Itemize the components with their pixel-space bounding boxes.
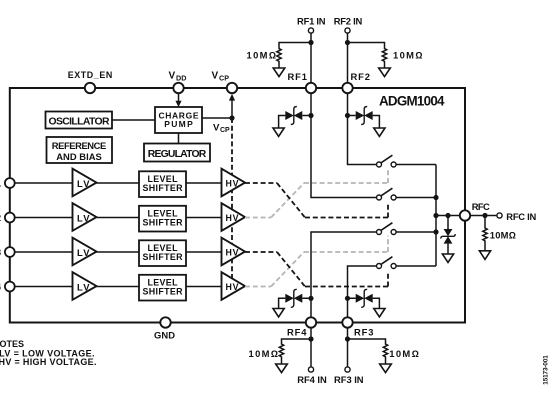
pin RF4 bbox=[287, 317, 316, 337]
svg-text:HV: HV bbox=[226, 282, 239, 292]
svg-text:2: 2 bbox=[0, 212, 1, 223]
node RF3IN junction bbox=[345, 336, 350, 341]
ground at RF1 IN resistor bbox=[273, 68, 285, 77]
svg-text:SHIFTER: SHIFTER bbox=[143, 286, 184, 296]
svg-text:HV: HV bbox=[226, 178, 239, 188]
pin RF1 bbox=[288, 71, 317, 93]
svg-text:RF1 IN: RF1 IN bbox=[297, 16, 326, 27]
pin EXTD_EN bbox=[68, 70, 113, 93]
amplifier HV row3 bbox=[222, 238, 246, 266]
svg-text:RF1: RF1 bbox=[288, 71, 308, 82]
switch SW4 (RF3 to RFC) bbox=[377, 257, 437, 269]
svg-text:RFC IN: RFC IN bbox=[506, 211, 536, 222]
reference and bias block bbox=[47, 137, 113, 163]
label VCP internal bbox=[213, 122, 230, 134]
level shifter row3 bbox=[139, 240, 222, 266]
amplifier HV row4 bbox=[222, 272, 246, 300]
amplifier LV row2 bbox=[73, 203, 140, 231]
terminal RF4 IN bbox=[297, 328, 327, 385]
wire row4 input bbox=[10, 286, 73, 288]
switch SW3 (RF4 to RFC) bbox=[377, 223, 437, 235]
amplifier LV row3 bbox=[73, 238, 140, 266]
pin IN3 (left edge) bbox=[0, 246, 15, 257]
svg-text:RFC: RFC bbox=[472, 201, 490, 212]
resistor 10M at RF3 IN bbox=[348, 339, 419, 364]
svg-text:1: 1 bbox=[0, 177, 1, 188]
node VCP junction dot bbox=[229, 115, 234, 120]
resistor 10M at RF2 IN bbox=[348, 43, 423, 69]
ESD diode pair at RF3 bbox=[345, 289, 380, 308]
svg-text:ADGM1004: ADGM1004 bbox=[379, 93, 445, 108]
wire arrow up to VCP pin bbox=[229, 94, 235, 118]
svg-text:LV: LV bbox=[77, 213, 90, 224]
ground at RF2 ESD bbox=[374, 128, 385, 136]
gate line (gray) HV2 to switch1: stub, diagonal up, run, riser bbox=[245, 168, 388, 218]
switch SW2 (RF1 to RFC) bbox=[377, 188, 437, 200]
terminal RFC IN bbox=[470, 211, 536, 222]
amplifier LV row4 bbox=[73, 272, 140, 300]
wire RF1 pin down to switch2 bbox=[311, 93, 377, 197]
svg-text:SHIFTER: SHIFTER bbox=[143, 252, 184, 262]
regulator block bbox=[144, 144, 210, 162]
main IC boundary box ADGM1004 bbox=[10, 88, 465, 323]
ESD diode pair at RF2 bbox=[345, 107, 380, 129]
svg-text:DD: DD bbox=[176, 74, 186, 83]
oscillator U-osc bbox=[46, 112, 113, 129]
amplifier HV row1 bbox=[222, 169, 246, 197]
svg-text:3: 3 bbox=[0, 246, 1, 257]
svg-text:SHIFTER: SHIFTER bbox=[143, 183, 184, 193]
node TVS junction on RFC wire bbox=[445, 213, 450, 218]
resistor 10M at RF4 IN bbox=[249, 339, 312, 364]
node bus-RFC junction bbox=[433, 213, 438, 218]
wire charge pump to regulator bbox=[178, 133, 180, 144]
wire bus to RFC pin bbox=[436, 215, 460, 217]
svg-text:LV: LV bbox=[77, 178, 90, 189]
svg-text:GND: GND bbox=[154, 330, 175, 341]
svg-text:10MΩ: 10MΩ bbox=[247, 49, 277, 60]
terminal RF3 IN bbox=[334, 328, 364, 385]
wire row3 input bbox=[10, 251, 73, 253]
pin IN2 (left edge) bbox=[0, 212, 15, 223]
svg-text:RF3: RF3 bbox=[354, 327, 374, 338]
pin VCP bbox=[212, 71, 238, 94]
ground at RF3 ESD bbox=[374, 309, 385, 317]
gate line (black) HV3 to switch4: stub, diagonal down, run, riser bbox=[245, 252, 388, 287]
svg-text:15173-001: 15173-001 bbox=[543, 355, 550, 385]
wire RFC bus vertical bbox=[435, 165, 437, 267]
terminal RF1 IN bbox=[297, 16, 326, 83]
svg-text:CP: CP bbox=[220, 127, 230, 134]
charge pump block bbox=[155, 107, 202, 133]
svg-text:RF4: RF4 bbox=[287, 327, 307, 338]
node RF1IN junction bbox=[308, 40, 313, 45]
wire charge pump output to VCP node bbox=[202, 117, 232, 119]
ground at RFC TVS bbox=[442, 254, 453, 262]
ground at RF1 ESD bbox=[273, 128, 284, 136]
pin GND bbox=[154, 317, 175, 340]
pin RF2 bbox=[342, 71, 370, 93]
svg-text:2. HV = HIGH VOLTAGE.: 2. HV = HIGH VOLTAGE. bbox=[0, 357, 97, 367]
node RFCIN junction bbox=[482, 213, 487, 218]
pin IN4 (left edge) bbox=[0, 281, 15, 292]
svg-text:RF4 IN: RF4 IN bbox=[297, 374, 327, 385]
pin RF3 bbox=[342, 317, 373, 337]
svg-text:NOTES: NOTES bbox=[0, 339, 24, 349]
switch SW1 (RF2 to RFC) bbox=[377, 155, 437, 167]
svg-text:LV: LV bbox=[77, 282, 90, 293]
wire oscillator to charge pump bbox=[112, 119, 155, 121]
svg-text:RF2: RF2 bbox=[351, 71, 371, 82]
svg-text:V: V bbox=[213, 122, 220, 133]
resistor 10M at RFC IN bbox=[483, 216, 516, 251]
wire RF2 pin down to switch1 bbox=[348, 93, 377, 164]
pin VDD bbox=[169, 71, 187, 94]
wire VCP dashed supply line down to HV drivers bbox=[231, 118, 233, 287]
node bus-sw2 junction bbox=[433, 195, 438, 200]
svg-text:REGULATOR: REGULATOR bbox=[148, 149, 207, 160]
svg-text:RF2 IN: RF2 IN bbox=[334, 16, 363, 27]
ground at RF4 ESD bbox=[273, 309, 284, 317]
wire RF4 pin up to switch3 bbox=[311, 232, 377, 317]
svg-text:V: V bbox=[169, 71, 176, 82]
svg-text:HV: HV bbox=[226, 247, 239, 257]
svg-text:CP: CP bbox=[219, 74, 229, 83]
svg-text:V: V bbox=[212, 71, 219, 82]
amplifier HV row2 bbox=[222, 203, 246, 231]
notes text bbox=[0, 339, 97, 367]
ESD diode pair at RF4 bbox=[279, 289, 314, 308]
level shifter row1 bbox=[139, 171, 222, 197]
resistor 10M at RF1 IN bbox=[247, 43, 312, 69]
pin RFC bbox=[460, 201, 490, 221]
svg-text:10MΩ: 10MΩ bbox=[389, 348, 419, 359]
svg-text:HV: HV bbox=[226, 213, 239, 223]
svg-text:EXTD_EN: EXTD_EN bbox=[68, 70, 113, 80]
TVS diode at RFC (vertical back-to-back) bbox=[441, 216, 455, 255]
wire VDD pin down into charge pump with arrow bbox=[175, 93, 181, 107]
level shifter row4 bbox=[139, 275, 222, 301]
wire row2 input bbox=[10, 217, 73, 219]
pin IN1 (left edge) bbox=[0, 177, 15, 188]
svg-text:10MΩ: 10MΩ bbox=[249, 348, 279, 359]
svg-text:RF3 IN: RF3 IN bbox=[334, 374, 364, 385]
svg-text:OSCILLATOR: OSCILLATOR bbox=[49, 117, 110, 128]
level shifter row2 bbox=[139, 206, 222, 232]
svg-text:10MΩ: 10MΩ bbox=[490, 230, 516, 241]
svg-text:LV: LV bbox=[77, 247, 90, 258]
svg-text:AND BIAS: AND BIAS bbox=[56, 151, 102, 162]
svg-text:REFERENCE: REFERENCE bbox=[52, 140, 107, 151]
amplifier LV row1 bbox=[73, 169, 140, 197]
ground at RFC IN resistor bbox=[479, 251, 490, 260]
ground at RF4 IN resistor bbox=[276, 364, 288, 373]
node RF2IN junction bbox=[345, 40, 350, 45]
svg-text:10MΩ: 10MΩ bbox=[393, 49, 423, 60]
gate line (gray) HV4 to switch3: stub, diagonal up, run, riser bbox=[245, 236, 388, 287]
wire row1 input bbox=[10, 182, 73, 184]
node RF4IN junction bbox=[308, 336, 313, 341]
wire RF3 pin up to switch4 bbox=[348, 266, 377, 317]
node bus-sw3 junction bbox=[433, 229, 438, 234]
ground at RF3 IN resistor bbox=[380, 364, 392, 373]
gate line (black) HV1 to switch2: stub, diagonal down, run, riser bbox=[245, 183, 388, 218]
svg-text:SHIFTER: SHIFTER bbox=[143, 217, 184, 227]
ESD diode pair at RF1 bbox=[279, 107, 314, 129]
ground at RF2 IN resistor bbox=[379, 68, 391, 77]
terminal RF2 IN bbox=[334, 16, 363, 83]
svg-text:PUMP: PUMP bbox=[164, 119, 193, 129]
